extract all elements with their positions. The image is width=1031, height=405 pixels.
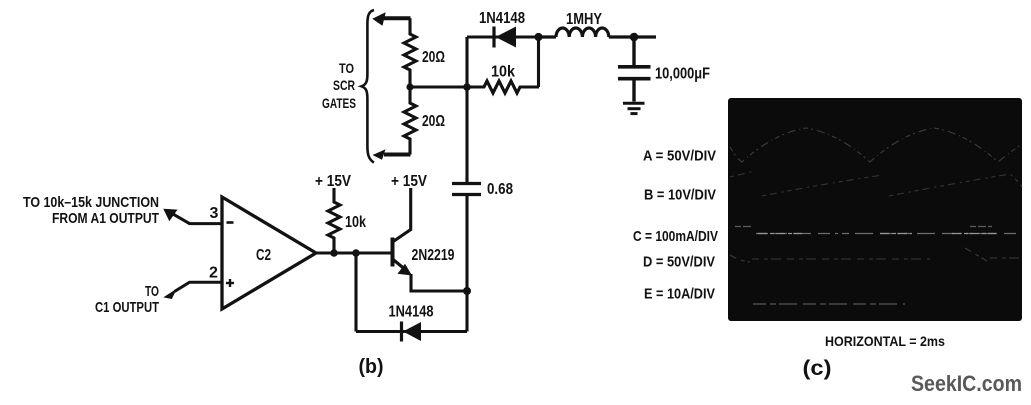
svg-text:D = 50V/DIV: D = 50V/DIV xyxy=(643,254,715,271)
svg-text:+ 15V: + 15V xyxy=(315,173,351,190)
node output junction xyxy=(330,249,338,257)
svg-text:(b): (b) xyxy=(359,356,384,378)
arrow to SCR gates top xyxy=(372,12,410,26)
svg-text:(c): (c) xyxy=(803,357,832,380)
svg-text:10k: 10k xyxy=(491,64,515,81)
svg-text:C2: C2 xyxy=(256,247,271,264)
svg-text:1MHY: 1MHY xyxy=(566,11,602,28)
svg-text:10,000μF: 10,000μF xyxy=(655,66,710,83)
inductor L1 1MHY xyxy=(539,28,657,37)
diode D2 1N4148 bottom xyxy=(389,304,434,342)
svg-text:TO: TO xyxy=(339,60,354,76)
arrow pin2 to C1 output xyxy=(163,282,222,299)
svg-text:FROM A1 OUTPUT: FROM A1 OUTPUT xyxy=(52,210,159,227)
scope scale labels xyxy=(633,148,718,303)
svg-text:C = 100mA/DIV: C = 100mA/DIV xyxy=(633,228,718,245)
svg-text:TO: TO xyxy=(145,283,159,300)
ground symbol xyxy=(623,103,645,113)
svg-text:2N2219: 2N2219 xyxy=(412,247,455,264)
svg-text:20Ω: 20Ω xyxy=(422,113,445,130)
svg-text:SCR: SCR xyxy=(333,77,355,93)
wire cap top vertical xyxy=(465,87,468,184)
wire right vertical of diode loop xyxy=(537,37,540,87)
capacitor 10000uF xyxy=(618,37,651,102)
wire op-amp output to base xyxy=(316,251,392,254)
resistor 20ohm top xyxy=(404,18,416,87)
svg-text:HORIZONTAL = 2ms: HORIZONTAL = 2ms xyxy=(825,333,945,349)
wire diode top rail xyxy=(467,35,539,38)
node diode inductor junction xyxy=(534,33,542,41)
trace C dashed xyxy=(756,233,1020,235)
svg-text:TO 10k–15k JUNCTION: TO 10k–15k JUNCTION xyxy=(23,194,159,211)
svg-text:+ 15V: + 15V xyxy=(391,173,427,190)
wire divider to filter node xyxy=(410,85,467,88)
label TO C1 OUTPUT xyxy=(95,283,159,316)
svg-text:0.68: 0.68 xyxy=(487,181,513,198)
svg-text:B = 10V/DIV: B = 10V/DIV xyxy=(644,187,716,204)
svg-text:3: 3 xyxy=(210,205,219,222)
trace B ramps xyxy=(730,171,1022,196)
node filter junction xyxy=(463,83,471,91)
transistor Q1 2N2219 xyxy=(393,238,468,292)
svg-text:1N4148: 1N4148 xyxy=(479,10,525,27)
node emitter junction xyxy=(463,287,471,295)
node feedback junction xyxy=(352,249,360,257)
arrow pin3 to A1 output xyxy=(163,209,222,224)
trace D dashed xyxy=(730,248,1022,262)
capacitor 0.68 xyxy=(452,184,481,195)
arrow to SCR gates bottom xyxy=(373,149,411,160)
svg-text:2: 2 xyxy=(209,265,218,282)
svg-text:GATES: GATES xyxy=(322,95,356,111)
node output cap junction xyxy=(630,33,639,42)
wire collector supply xyxy=(393,188,411,242)
svg-text:1N4148: 1N4148 xyxy=(389,304,434,321)
oscilloscope photo xyxy=(728,98,1022,321)
resistor 20ohm bottom xyxy=(404,87,416,155)
wire right vertical emitter to bottom xyxy=(465,195,468,332)
trace A humps xyxy=(730,128,1022,162)
svg-text:C1 OUTPUT: C1 OUTPUT xyxy=(95,299,159,316)
svg-text:A = 50V/DIV: A = 50V/DIV xyxy=(643,148,716,165)
label TO SCR GATES xyxy=(322,60,356,111)
resistor 10k bias xyxy=(328,188,340,253)
wire feedback bottom rail xyxy=(356,330,467,333)
wire feedback vertical left xyxy=(354,253,357,332)
wire left vertical of diode loop xyxy=(465,37,468,87)
brace to SCR gates xyxy=(362,10,375,163)
svg-text:10k: 10k xyxy=(345,214,366,231)
trace E dashed xyxy=(753,303,905,305)
label TO 10k-15k JUNCTION FROM A1 OUTPUT xyxy=(23,194,159,227)
diode D1 1N4148 top xyxy=(479,10,525,48)
svg-text:20Ω: 20Ω xyxy=(422,49,445,66)
svg-text:SeekIC.com: SeekIC.com xyxy=(911,371,1022,396)
svg-text:E = 10A/DIV: E = 10A/DIV xyxy=(644,286,715,303)
resistor 10k feedback xyxy=(467,81,539,93)
op-amp U1 C2 xyxy=(222,197,316,309)
node divider junction xyxy=(406,83,413,90)
